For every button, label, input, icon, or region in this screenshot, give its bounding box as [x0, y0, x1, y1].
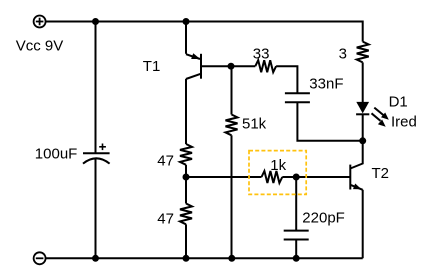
resistor 1k: [262, 171, 283, 183]
junction node ground at 100uF: [92, 255, 99, 262]
junction node top rail at T1: [183, 18, 190, 25]
transistor T2 NPN: [350, 165, 362, 190]
junction node LED cathode / T2 collector: [359, 137, 366, 144]
wire 3 to LED anode: [362, 62, 364, 102]
wire 220pF to ground rail: [295, 240, 297, 259]
wire node between 47 resistors: [185, 165, 187, 204]
resistor 33: [255, 60, 276, 72]
svg-text:Ired: Ired: [391, 114, 417, 131]
svg-text:220pF: 220pF: [302, 210, 345, 227]
resistor 47 lower: [180, 204, 192, 225]
battery negative terminal: [34, 252, 46, 264]
wire 1k node to 220pF: [295, 177, 297, 231]
wire 33 to 33nF: [276, 66, 297, 93]
wire 47 lower to ground rail: [185, 224, 187, 258]
capacitor 220pF: [284, 231, 309, 240]
wire T1 base to node: [201, 65, 255, 67]
junction node top rail at 100uF: [92, 18, 99, 25]
LED D1: [356, 102, 369, 114]
svg-text:Vcc 9V: Vcc 9V: [16, 38, 64, 55]
wire LED cathode to node: [362, 114, 364, 141]
capacitor 33nF: [285, 93, 310, 102]
svg-text:100uF: 100uF: [35, 146, 78, 163]
wire bottom rail: [46, 257, 363, 259]
svg-text:51k: 51k: [242, 115, 267, 132]
junction node ground at 220pF: [293, 255, 300, 262]
wire 33nF to node at LED cathode: [297, 102, 362, 141]
wire Vcc to 100uF capacitor: [95, 22, 97, 154]
resistor 47 upper: [180, 144, 192, 165]
svg-text:1k: 1k: [270, 157, 286, 174]
svg-text:47: 47: [157, 210, 174, 227]
wire top rail: [46, 22, 363, 42]
wire 100uF to ground rail: [95, 158, 97, 258]
junction node ground at 51k: [228, 255, 235, 262]
junction node T1 base: [228, 63, 235, 70]
battery positive terminal: [34, 16, 46, 28]
svg-text:D1: D1: [389, 94, 408, 111]
junction node 1k / 220pF / T2 base: [293, 174, 300, 181]
svg-text:33: 33: [253, 45, 270, 62]
svg-text:T2: T2: [372, 165, 390, 182]
wire Vcc to T1 emitter: [185, 22, 187, 54]
wire T2 emitter to ground rail: [362, 190, 364, 258]
svg-text:33nF: 33nF: [309, 75, 343, 92]
junction node ground at 47: [183, 255, 190, 262]
junction node between 47 resistors: [183, 174, 190, 181]
wire 51k to ground rail: [231, 135, 233, 258]
wire node to T2 collector: [350, 141, 362, 169]
wire 47 node to 1k: [186, 176, 262, 178]
wire 51k from base node down: [231, 66, 233, 114]
resistor 3: [357, 42, 369, 63]
wire T1 collector down: [185, 79, 187, 144]
svg-text:47: 47: [157, 152, 174, 169]
LED light emission arrows: [372, 108, 389, 127]
wire 1k to T2 base: [282, 176, 350, 178]
svg-text:T1: T1: [143, 58, 161, 75]
highlight box around 1k: [249, 151, 306, 195]
svg-text:3: 3: [339, 45, 347, 62]
resistor 51k: [226, 115, 238, 136]
transistor T1 PNP: [186, 53, 201, 79]
capacitor 100uF polarized: [83, 144, 110, 164]
